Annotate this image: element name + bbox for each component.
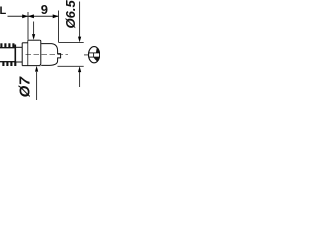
svg-text:L: L xyxy=(0,5,7,17)
svg-text:9: 9 xyxy=(41,2,48,17)
svg-text:Ø6.5: Ø6.5 xyxy=(63,0,78,29)
svg-text:Ø7: Ø7 xyxy=(17,76,34,97)
